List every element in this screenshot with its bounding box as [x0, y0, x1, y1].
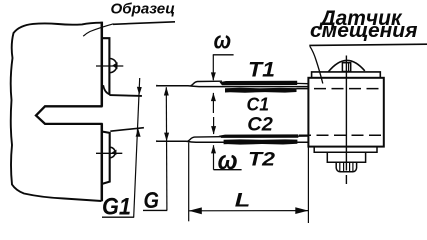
sensor tip thread hatching: [340, 163, 353, 172]
svg-text:ω: ω: [214, 27, 232, 54]
svg-text:ω: ω: [218, 147, 238, 175]
leader line from Obrazec label to sample: [83, 24, 113, 36]
sensor top nub: [342, 63, 350, 72]
top screw head (half-round): [110, 59, 117, 73]
sensor vertical centerline: [345, 56, 347, 185]
dimension G: line: [165, 87, 168, 210]
omega bottom upper arrowhead (down): [211, 126, 216, 134]
sample right edge lower segment: [101, 123, 104, 201]
sensor dome: [328, 60, 365, 71]
chevron notch in sample: [36, 106, 103, 124]
dashed axis of upper arm inside sensor: [297, 88, 383, 90]
G lower arrowhead (down): [164, 133, 169, 142]
dashed axis of lower arm inside sensor: [299, 134, 383, 136]
sensor cap plate: [312, 72, 381, 78]
G1 upper arrowhead (down): [137, 87, 142, 95]
sensor body: [308, 78, 383, 147]
L left arrowhead: [189, 207, 202, 214]
bottom knife-edge bracket on sample: [103, 132, 110, 184]
bottom arm tip and bottom edge: [156, 141, 308, 142]
bottom arm step and top edge: [188, 137, 221, 142]
G upper arrowhead (up): [164, 87, 169, 96]
omega top lower arrowhead (up): [211, 93, 216, 101]
svg-text:Т2: Т2: [248, 150, 276, 171]
svg-text:С1: С1: [247, 93, 270, 114]
knife edge extension line (top, G1 reference): [109, 94, 141, 97]
strain gauge bar T1 (on top of upper arm): [220, 81, 298, 85]
sample right edge upper segment: [101, 22, 104, 107]
svg-text:L: L: [235, 190, 251, 211]
underline of sensor label: [309, 44, 427, 45]
top arm step and top edge: [191, 81, 223, 86]
omega bottom lower arrowhead (up): [211, 145, 216, 153]
G label shelf: [143, 209, 167, 211]
L right extension line (sensor edge extended): [307, 147, 309, 223]
omega top shelf: [213, 54, 234, 56]
strain gauge bar C2 (on top of lower arm): [219, 134, 299, 138]
strain gauge bar T2 (under lower arm, rough): [224, 139, 298, 144]
omega top dimension line upper: [212, 55, 214, 80]
omega top dimension line lower tail: [212, 93, 214, 113]
sensor top nub inner line: [348, 63, 350, 71]
bottom screw centerline: [96, 152, 122, 154]
L right arrowhead: [295, 207, 308, 214]
top arm bottom edge: [156, 85, 308, 88]
omega bottom shelf: [214, 169, 242, 171]
dimension L: left extension line: [188, 143, 190, 222]
svg-text:смещения: смещения: [310, 20, 418, 42]
L dimension line: [189, 210, 309, 212]
sensor bottom block: [327, 152, 365, 162]
top screw centerline: [96, 65, 123, 67]
svg-text:Образец: Образец: [111, 1, 176, 17]
strain gauge bar C1 (under upper arm, rough): [225, 88, 297, 93]
top screw slot wedge: [112, 62, 117, 69]
top arm top edge at sensor: [297, 82, 309, 84]
sensor bottom plate: [314, 147, 377, 153]
bottom screw slot wedge: [112, 150, 117, 156]
top knife-edge bracket on sample: [103, 38, 110, 95]
leader line from sensor label to sensor body: [310, 46, 323, 83]
G1 label shelf: [102, 216, 134, 218]
dimension G1: line: [134, 78, 140, 217]
svg-text:G1: G1: [102, 193, 131, 220]
knife edge extension line (bottom, G1 reference): [110, 128, 144, 132]
omega top upper arrowhead (down): [211, 72, 216, 80]
bottom arm knife tip: [156, 140, 162, 142]
omega bottom dimension line lower: [213, 145, 215, 170]
svg-text:С2: С2: [247, 114, 273, 135]
svg-text:Т1: Т1: [248, 58, 275, 81]
G1 lower arrowhead (up): [136, 129, 141, 137]
svg-text:G: G: [144, 187, 160, 213]
underline of Obrazec label: [113, 22, 175, 25]
dimension omega (bottom): upper tail: [213, 117, 215, 134]
sample body freehand outline (top, left, bottom break lines): [11, 23, 102, 201]
sensor threaded tip: [336, 162, 356, 171]
top arm knife tip: [156, 85, 162, 87]
bottom screw head (half-round): [110, 147, 115, 157]
top bracket lower inner curve: [103, 85, 110, 94]
bottom arm top edge at sensor: [298, 135, 308, 137]
